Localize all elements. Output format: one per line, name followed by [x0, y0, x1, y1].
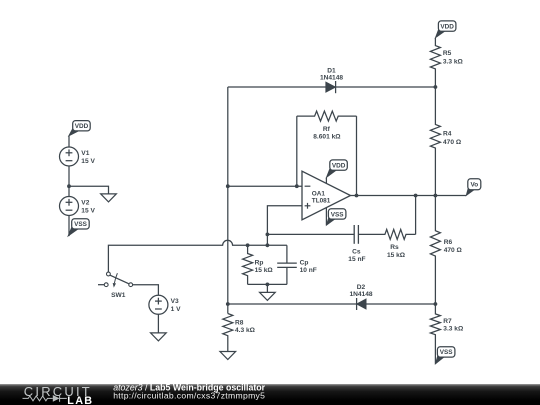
svg-text:470 Ω: 470 Ω: [443, 139, 462, 146]
diode D2: [357, 298, 367, 310]
junction output / right rail: [434, 194, 438, 198]
footer bar: [0, 384, 540, 405]
wire inverting input: [228, 185, 302, 187]
svg-text:TL081: TL081: [312, 197, 331, 204]
svg-text:1N4148: 1N4148: [320, 75, 343, 82]
resistor Rs: [358, 229, 415, 239]
svg-text:R5: R5: [443, 50, 452, 57]
svg-text:R7: R7: [443, 318, 452, 325]
label R4: [443, 130, 462, 146]
svg-text:D1: D1: [327, 67, 336, 74]
junction feedback tap: [295, 184, 299, 188]
svg-text:1 V: 1 V: [171, 306, 181, 313]
label Rp: [255, 260, 274, 275]
svg-text:V2: V2: [81, 200, 89, 207]
label R5: [443, 50, 464, 65]
resistor R8: [223, 314, 233, 352]
svg-text:8.601 kΩ: 8.601 kΩ: [313, 134, 341, 141]
resistor R7: [430, 304, 440, 364]
footer title: [113, 382, 265, 392]
wire left rail (D1 node down to R8): [227, 87, 229, 314]
footer url: [113, 391, 265, 401]
wire D2 branch: [228, 303, 436, 305]
label Rf: [313, 126, 341, 141]
label D2: [349, 284, 372, 298]
power flag VSS (op-amp): [326, 209, 346, 225]
power flag VDD (op-amp): [326, 160, 347, 178]
label R7: [443, 318, 464, 333]
junction D2 / left rail: [226, 302, 230, 306]
svg-text:15 V: 15 V: [81, 158, 95, 165]
power flag VDD (V1): [69, 121, 91, 136]
op-amp OA1 power pins: [325, 178, 327, 226]
svg-text:LAB: LAB: [67, 395, 93, 405]
resistor Rp: [243, 245, 253, 284]
label Cp: [300, 260, 317, 275]
svg-text:R8: R8: [235, 320, 244, 327]
label D1: [320, 67, 343, 81]
voltage source V1: [60, 136, 79, 186]
op-amp OA1 TL081: [302, 171, 351, 220]
svg-text:http://circuitlab.com/cxs37ztm: http://circuitlab.com/cxs37ztmmpmy5: [113, 391, 265, 401]
net flag Vo: [466, 179, 481, 196]
wire feedback loop left: [296, 116, 298, 186]
wire supply midpoint to ground: [69, 186, 109, 194]
switch SW1: [98, 272, 133, 288]
junction output / feedback: [355, 194, 359, 198]
svg-text:15 V: 15 V: [81, 207, 95, 214]
junction node between V1 and V2: [67, 184, 71, 188]
power flag VSS (V2): [68, 219, 89, 236]
svg-text:SW1: SW1: [111, 292, 126, 299]
junction RC ground: [266, 283, 270, 287]
voltage source V3: [149, 295, 168, 333]
svg-text:Cp: Cp: [300, 260, 309, 267]
ground (R8): [220, 352, 236, 360]
wire Rs up to output: [415, 196, 417, 235]
svg-text:R6: R6: [444, 239, 453, 246]
svg-text:470 Ω: 470 Ω: [444, 247, 463, 254]
svg-text:3.3 kΩ: 3.3 kΩ: [443, 326, 464, 333]
junction D2 / right rail: [434, 302, 438, 306]
svg-text:VDD: VDD: [332, 162, 346, 169]
label Rs: [387, 244, 406, 259]
junction inverting node / left rail: [226, 184, 230, 188]
CircuitLab logo: [23, 384, 94, 405]
svg-text:Cs: Cs: [352, 249, 361, 256]
voltage source V2: [60, 186, 79, 236]
svg-text:15 kΩ: 15 kΩ: [255, 267, 274, 274]
label V1: [81, 150, 95, 165]
label V3: [171, 298, 181, 313]
power flag VDD (right rail): [435, 21, 456, 38]
svg-text:Rp: Rp: [255, 260, 264, 267]
ground (supply midpoint): [101, 194, 117, 202]
svg-text:D2: D2: [357, 284, 366, 291]
svg-text:1N4148: 1N4148: [349, 291, 372, 298]
svg-text:R4: R4: [443, 130, 452, 137]
label V2: [81, 200, 95, 215]
svg-text:V3: V3: [171, 298, 179, 305]
resistor R5: [430, 38, 440, 87]
svg-text:VSS: VSS: [440, 349, 454, 356]
junction D1 / right rail: [434, 85, 438, 89]
label OA1 TL081: [312, 190, 331, 204]
resistor R6: [430, 196, 440, 305]
wire D1 branch: [228, 86, 436, 88]
wire SW1 up and over to RC network: [108, 240, 287, 272]
junction output / Rs: [414, 194, 418, 198]
svg-text:VSS: VSS: [74, 221, 88, 228]
svg-text:Rf: Rf: [323, 126, 331, 133]
label R6: [444, 239, 463, 254]
ground (RC network): [260, 292, 276, 300]
svg-text:OA1: OA1: [312, 190, 326, 197]
junction series RC tap: [266, 233, 270, 237]
wire noninverting input: [267, 206, 302, 246]
label Cs: [348, 249, 365, 264]
svg-text:V1: V1: [81, 150, 89, 157]
label SW1: [111, 292, 126, 299]
svg-text:4.3 kΩ: 4.3 kΩ: [235, 327, 256, 334]
wire to Cs: [267, 233, 354, 235]
junction noninverting / RC top: [266, 243, 270, 247]
svg-text:10 nF: 10 nF: [300, 267, 317, 274]
wire feedback loop right: [356, 116, 358, 195]
svg-text:VDD: VDD: [440, 23, 454, 30]
svg-text:3.3 kΩ: 3.3 kΩ: [443, 58, 464, 65]
junction Rp top: [246, 243, 250, 247]
resistor Rf: [297, 111, 357, 121]
svg-text:15 kΩ: 15 kΩ: [387, 252, 406, 259]
ground (V3): [151, 333, 167, 341]
wire SW1 to V3: [133, 285, 159, 296]
wire RC network bottom: [248, 283, 287, 285]
svg-text:VDD: VDD: [75, 123, 89, 130]
svg-text:VSS: VSS: [331, 211, 345, 218]
label R8: [235, 320, 256, 335]
capacitor Cp: [277, 245, 297, 284]
diode D1: [326, 81, 336, 93]
resistor R4: [430, 87, 440, 196]
svg-text:15 nF: 15 nF: [348, 256, 365, 263]
wire output: [351, 195, 467, 197]
svg-text:Rs: Rs: [390, 244, 399, 251]
power flag VSS (right rail): [435, 347, 455, 364]
capacitor Cs: [354, 225, 358, 244]
svg-text:Vo: Vo: [470, 182, 478, 189]
wire RC ground stub: [266, 284, 268, 292]
